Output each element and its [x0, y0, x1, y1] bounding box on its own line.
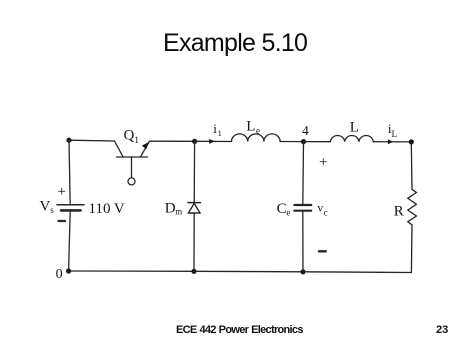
label vc [317, 200, 327, 217]
bottom plate [294, 210, 311, 212]
node junction dot top-left [66, 138, 71, 143]
svg-text:+: + [58, 184, 66, 200]
left rail lower wire [69, 210, 71, 271]
svg-text:C: C [277, 201, 287, 217]
label Ce [277, 201, 291, 217]
svg-text:R: R [394, 204, 404, 220]
wire from L to top-right node with iL arrowhead [373, 141, 411, 143]
node junction dot top-right [409, 139, 414, 144]
label node 0 [56, 267, 63, 282]
emitter lead [141, 141, 150, 157]
wire top from left rail to Q1 collector [69, 139, 115, 142]
svg-text:v: v [317, 200, 323, 214]
inductor L [330, 136, 373, 142]
base terminal circle [128, 178, 135, 185]
junction dot bottom diode branch [191, 269, 196, 274]
emitter arrowhead [142, 142, 149, 150]
svg-text:V: V [40, 199, 51, 215]
diode branch lower wire [193, 213, 195, 271]
wire from junction to inductor Le with i1 arrowhead [195, 140, 232, 142]
svg-text:D: D [165, 200, 176, 216]
svg-text:c: c [324, 207, 328, 217]
label plus vc [319, 155, 327, 171]
label iL [388, 121, 398, 140]
right rail upper wire [410, 142, 413, 189]
battery short thick plate [61, 209, 81, 212]
node 0 dot bottom-left [66, 268, 71, 273]
arrowhead i1 [209, 139, 215, 144]
footer course name [176, 325, 303, 336]
svg-text:+: + [319, 155, 327, 171]
svg-text:110 V: 110 V [89, 201, 125, 217]
label 110 V [89, 201, 125, 217]
footer page number [436, 325, 448, 336]
svg-text:m: m [175, 207, 182, 217]
capacitor Ce [294, 205, 311, 211]
label R [394, 204, 404, 220]
svg-text:e: e [256, 126, 260, 136]
label Dm [165, 200, 182, 216]
node 4 junction dot [301, 139, 306, 144]
label minus Vs [59, 220, 66, 222]
diode branch upper wire [193, 141, 195, 202]
label minus vc [319, 250, 326, 252]
svg-text:Q: Q [124, 128, 135, 144]
arrowhead iL [388, 139, 393, 144]
wire from node 4 to inductor L [304, 141, 331, 143]
diode Dm [188, 203, 200, 213]
wire from Le to node 4 [280, 141, 303, 143]
transistor Q1 [115, 141, 150, 185]
node junction dot at Dm top [192, 139, 197, 144]
junction dot bottom capacitor branch [300, 269, 305, 274]
capacitor branch lower wire [302, 211, 304, 272]
svg-text:e: e [286, 208, 290, 218]
battery long plate [57, 204, 84, 206]
label i1 [213, 121, 222, 138]
battery Vs [57, 205, 84, 211]
svg-text:1: 1 [218, 128, 222, 138]
cathode bar [188, 202, 200, 204]
left rail upper wire [69, 140, 70, 205]
label node 4 [302, 123, 309, 138]
svg-text:0: 0 [56, 267, 63, 282]
label L [350, 120, 359, 136]
svg-text:L: L [246, 119, 255, 135]
capacitor branch upper wire [302, 142, 305, 205]
wire from Q1 emitter to Dm junction [150, 140, 195, 142]
label Vs [40, 199, 55, 216]
svg-text:L: L [392, 130, 398, 140]
inductor Le [232, 134, 281, 142]
label plus Vs [58, 184, 66, 200]
anode triangle [188, 203, 200, 213]
collector lead [115, 141, 124, 157]
label Le [246, 119, 260, 136]
svg-text:1: 1 [134, 136, 139, 146]
svg-text:L: L [350, 120, 359, 136]
slide title [163, 31, 307, 56]
svg-text:4: 4 [302, 123, 309, 138]
base lead [131, 157, 133, 178]
bottom wire [69, 271, 412, 273]
label Q1 [124, 128, 140, 147]
right rail lower wire [410, 225, 413, 273]
resistor R zigzag [408, 189, 417, 225]
svg-text:s: s [50, 205, 54, 215]
base bar [117, 156, 148, 158]
top plate [294, 204, 311, 206]
